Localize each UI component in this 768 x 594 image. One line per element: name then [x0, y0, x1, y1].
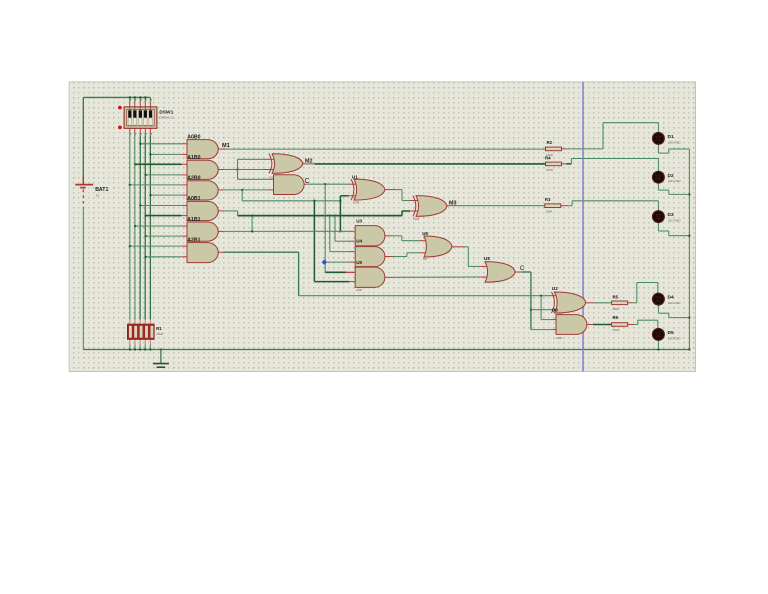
- value label D3 LED-RED: [668, 219, 681, 223]
- value label D4 LED-RED: [668, 301, 681, 305]
- wire DSW1 top pin 5 riser: [149, 97, 151, 107]
- wire DSW1 top pin 3 riser: [139, 96, 141, 107]
- DIP switch DSW1: [124, 107, 157, 128]
- svg-text:C: C: [520, 265, 525, 272]
- label U5: [356, 260, 362, 265]
- label R5: [613, 295, 619, 300]
- label U1: [352, 174, 358, 179]
- AND gate U4: [355, 247, 385, 267]
- ground symbol: [153, 350, 169, 368]
- junction ground bus / ground tap: [160, 349, 162, 351]
- svg-text:A0B1: A0B1: [187, 196, 200, 202]
- wire U6 output to U8 input A: [452, 247, 488, 267]
- wire U9 output to R6: [587, 324, 612, 326]
- svg-text:U2: U2: [552, 286, 558, 291]
- AND gate A1B1 (partial product): [187, 222, 218, 241]
- label DSW1: [159, 110, 173, 116]
- svg-text:U5: U5: [356, 260, 362, 265]
- AND gate A2B1 (partial product): [187, 243, 218, 263]
- schematic sheet: [69, 82, 696, 372]
- wire LED D4 cathode to bus: [658, 305, 690, 319]
- svg-text:DSW1: DSW1: [159, 110, 173, 116]
- label R1: [156, 326, 162, 331]
- AND gate A0B0 (partial product): [187, 140, 218, 159]
- svg-text:XOR: XOR: [413, 217, 419, 221]
- node C2 label: [520, 265, 525, 272]
- wire A1 to gate A1B1 input A: [134, 225, 187, 227]
- wire LED D3 cathode to bus: [658, 222, 690, 236]
- label U9: [552, 308, 558, 313]
- XOR gate U2: [552, 292, 586, 313]
- label U2: [552, 286, 558, 291]
- XOR gate half-adder sum (M2): [269, 154, 303, 174]
- wire node M1 (A0B0 output to R2): [218, 148, 545, 150]
- svg-text:M1: M1: [222, 143, 230, 149]
- wire R1 resistor 2 to ground bus: [134, 339, 136, 350]
- svg-text:XOR: XOR: [353, 201, 359, 205]
- label D3: [668, 212, 674, 218]
- DSW1 state indicator dots: [118, 106, 122, 130]
- svg-text:AND: AND: [356, 288, 362, 292]
- AND gate A2B0 (partial product): [187, 181, 218, 200]
- wire LED D5 cathode to ground bus: [657, 340, 659, 351]
- label XOR of M2 gate: [269, 175, 275, 179]
- wire ground bus (bottom): [83, 349, 689, 351]
- svg-text:R2: R2: [547, 140, 553, 145]
- wire R1 resistor 5 to ground bus: [149, 339, 151, 350]
- label A1B1: [187, 217, 200, 223]
- label U8: [484, 256, 490, 261]
- wire DSW1 bottom pin 1 to resistor pack R1: [129, 128, 131, 324]
- label A2B0: [187, 176, 200, 182]
- wire A1 to gate A1B0 input A: [134, 163, 187, 165]
- wire B0 to gate A1B0 input B: [145, 174, 187, 176]
- wire DSW1 top pin 2 riser: [134, 96, 136, 107]
- label R4: [545, 155, 551, 160]
- wire C riser down to U5 input A: [325, 184, 355, 272]
- value label D1 LED-RED: [668, 140, 681, 144]
- svg-text:LED-RED: LED-RED: [668, 140, 681, 144]
- value label DSW1 DIPSW_5: [159, 116, 173, 120]
- wire DSW1 top pin 1 riser: [129, 96, 131, 107]
- svg-text:D5: D5: [668, 330, 674, 336]
- label OR of U6: [423, 257, 427, 261]
- svg-text:U1: U1: [352, 174, 358, 179]
- label A1B0: [187, 155, 200, 161]
- wire A2B0 output to AND C input B: [218, 189, 273, 191]
- label BAT1: [95, 187, 108, 193]
- label XOR of U1: [353, 201, 359, 205]
- svg-text:A1B0: A1B0: [187, 155, 200, 161]
- svg-text:330R: 330R: [545, 209, 552, 213]
- svg-text:AND: AND: [556, 336, 562, 340]
- label R6: [613, 315, 619, 320]
- wire A0B1 output to carry rail: [218, 211, 237, 216]
- svg-text:R5: R5: [613, 295, 619, 300]
- wire node C2 (U8 output) down to U2 and U9: [515, 272, 556, 330]
- svg-text:R4: R4: [545, 155, 551, 160]
- label A0B0: [187, 134, 200, 140]
- label D5: [668, 330, 674, 336]
- junction blue origin marker: [322, 260, 327, 265]
- wire R6 to LED D5: [628, 320, 658, 329]
- resistor R2: [546, 147, 562, 151]
- label R2: [547, 140, 553, 145]
- wire DSW1 bottom pin 2 to resistor pack R1: [134, 128, 136, 324]
- svg-text:U6: U6: [422, 231, 428, 236]
- wire B1 to gate A0B1 input B: [145, 215, 187, 217]
- svg-text:DIPSW_5: DIPSW_5: [159, 116, 173, 120]
- wire R4 to LED D2: [562, 159, 659, 172]
- wire DSW1 bottom pin 4 to resistor pack R1: [144, 128, 146, 324]
- node M2 label: [305, 159, 313, 165]
- wire DSW1 top pin 4 riser: [144, 96, 146, 107]
- svg-text:230R: 230R: [156, 332, 163, 336]
- svg-text:330R: 330R: [612, 307, 619, 311]
- wire battery positive to DIP switch common: [83, 97, 150, 183]
- node M1 label: [222, 143, 230, 149]
- wire B0 to gate A2B0 input B: [149, 194, 187, 196]
- svg-text:LED-RED: LED-RED: [668, 301, 681, 305]
- label D1: [668, 134, 674, 140]
- wire U4 output to U6 input B: [385, 253, 428, 257]
- value label R5 330R: [612, 307, 619, 311]
- resistor pack R1: [128, 324, 155, 339]
- svg-text:OR: OR: [423, 257, 427, 261]
- svg-text:U8: U8: [484, 256, 490, 261]
- wire A2B1 output to U2 input A and U9 input A: [218, 252, 556, 319]
- wire B1 to gate A1B1 input B: [145, 235, 187, 237]
- AND gate half-adder carry (C1): [274, 175, 305, 195]
- wire riser to U5 input B: [314, 201, 354, 282]
- svg-text:A2B1: A2B1: [187, 237, 200, 243]
- label D4: [668, 295, 674, 301]
- wire node M2 (XOR output to R4): [303, 163, 546, 165]
- wire R1 resistor 3 to ground bus: [139, 339, 141, 350]
- wire A1B1 output to U3 input A: [218, 230, 354, 232]
- wire R1 resistor 4 to ground bus: [144, 339, 146, 350]
- LED D1: [653, 133, 665, 145]
- label AND of U9: [556, 336, 562, 340]
- value label R4 330R: [546, 168, 553, 172]
- wire DSW1 bottom pin 3 to resistor pack R1: [139, 128, 141, 324]
- OR gate U6: [424, 236, 452, 257]
- wire LED D1 cathode to LED return bus: [658, 144, 689, 153]
- value label R3 330R: [545, 209, 552, 213]
- svg-text:C: C: [305, 178, 310, 185]
- wire R1 resistor 1 to ground bus: [129, 339, 131, 350]
- battery BAT1: [75, 176, 93, 207]
- svg-text:U3: U3: [356, 218, 362, 223]
- LED D3: [653, 211, 665, 223]
- wire node A2B0 branch down to mid rail: [242, 190, 341, 202]
- svg-text:R3: R3: [545, 197, 551, 202]
- wire U5 output to U8 input B: [385, 276, 489, 278]
- value label R2 330R: [546, 153, 553, 157]
- svg-text:M3: M3: [449, 201, 457, 207]
- wire carry rail riser to U4 input A: [330, 216, 355, 252]
- label A2B1: [187, 237, 200, 243]
- svg-text:M2: M2: [305, 159, 313, 165]
- value label D2 LED-RED: [668, 179, 681, 183]
- svg-text:330R: 330R: [612, 328, 619, 332]
- AND gate A1B0 (partial product): [187, 160, 218, 179]
- wire LED return bus (right): [688, 149, 690, 351]
- svg-text:D4: D4: [668, 295, 674, 301]
- wire A1B0 output to XOR M2 inputs and AND C input: [218, 159, 275, 179]
- label U4: [356, 239, 362, 244]
- value label D5 LED-RED: [668, 336, 681, 340]
- LED D5: [653, 329, 665, 341]
- svg-text:R1: R1: [156, 326, 162, 331]
- wire blue-marker net to U4 input B: [326, 261, 355, 263]
- wire battery negative down to ground bus: [82, 207, 84, 350]
- DSW1 top pin number marks: [129, 99, 152, 102]
- label R3: [545, 197, 551, 202]
- wire U3 output to U6 input A: [385, 236, 428, 241]
- label A0B1: [187, 196, 200, 202]
- wire riser to U1 input B and U3 input A: [339, 196, 356, 233]
- value label R6 330R: [612, 328, 619, 332]
- wire carry rail riser to U3 input B: [335, 216, 354, 242]
- wire B1 to gate A2B1 input B: [145, 256, 187, 258]
- svg-text:BAT1: BAT1: [95, 187, 108, 193]
- svg-text:D2: D2: [668, 173, 674, 179]
- AND gate A0B1 (partial product): [187, 201, 218, 220]
- svg-text:R6: R6: [613, 315, 619, 320]
- svg-text:LED-RED: LED-RED: [668, 336, 681, 340]
- wire A2 to gate A2B0 input A: [129, 184, 187, 186]
- wire R2 to LED D1: [562, 123, 659, 149]
- XOR gate U1: [351, 179, 385, 200]
- AND gate U9: [556, 315, 587, 335]
- label U6: [422, 231, 428, 236]
- label AND of U5: [356, 288, 362, 292]
- XOR gate second full-adder sum: [413, 196, 447, 217]
- resistor R4: [546, 162, 562, 166]
- wire carry rail (dark) to XOR2 input B: [238, 211, 419, 217]
- LED D4: [653, 293, 665, 305]
- label XOR of XOR2: [413, 217, 419, 221]
- svg-text:A1B1: A1B1: [187, 217, 200, 223]
- wire A0 to gate A0B1 input A: [139, 205, 187, 207]
- svg-text:A0B0: A0B0: [187, 134, 200, 140]
- resistor R5: [612, 301, 628, 305]
- wire R5 to LED D4: [628, 283, 658, 303]
- resistor R6: [612, 323, 628, 327]
- wire A0 to gate A0B0 input A: [139, 143, 187, 145]
- value label R1 230R: [156, 332, 163, 336]
- DSW1 bottom pin number marks: [129, 133, 152, 136]
- label D2: [668, 173, 674, 179]
- svg-text:A2B0: A2B0: [187, 176, 200, 182]
- wire U2 output to R5: [586, 302, 612, 304]
- svg-text:LED-RED: LED-RED: [668, 219, 681, 223]
- OR gate U8: [485, 262, 515, 283]
- wire R3 to LED D3: [561, 201, 658, 211]
- svg-text:9V: 9V: [96, 194, 100, 198]
- wire A1B1 tap up to carry rail: [251, 216, 253, 233]
- wire DSW1 bottom pin 5 to resistor pack R1: [149, 128, 151, 324]
- wire LED D2 cathode to bus: [658, 183, 690, 196]
- label U3: [356, 218, 362, 223]
- label XOR of U2: [557, 312, 563, 316]
- resistor R3: [545, 204, 561, 208]
- svg-text:D3: D3: [668, 212, 674, 218]
- svg-text:U9: U9: [552, 308, 558, 313]
- AND gate U3: [355, 226, 385, 246]
- wire U1 output to XOR2 input A: [385, 190, 419, 201]
- LED D2: [653, 171, 665, 183]
- sheet divider (blue line): [582, 82, 584, 372]
- wire AND C output to U1 input A and U5 riser: [304, 183, 357, 185]
- node C1 label: [305, 178, 310, 185]
- svg-text:D1: D1: [668, 134, 674, 140]
- wire A2 to gate A2B1 input A: [129, 245, 187, 247]
- svg-text:U4: U4: [356, 239, 362, 244]
- svg-text:LED-RED: LED-RED: [668, 179, 681, 183]
- node M3 label: [449, 201, 457, 207]
- AND gate U5: [355, 267, 385, 287]
- svg-text:330R: 330R: [546, 168, 553, 172]
- value label BAT1 9V: [96, 194, 100, 198]
- wire B0 to gate A0B0 input B: [149, 153, 187, 155]
- wire node M3 (XOR2 output to R3): [447, 205, 545, 207]
